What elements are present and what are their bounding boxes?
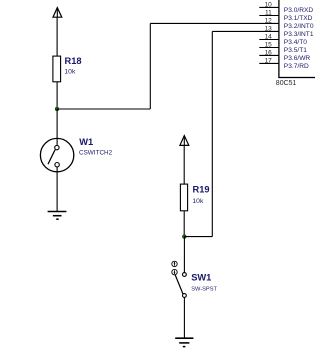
pin 15 stub xyxy=(259,47,279,49)
svg-text:W1: W1 xyxy=(79,137,93,147)
svg-text:P3.2/INT0: P3.2/INT0 xyxy=(284,23,314,30)
svg-text:CSWITCH2: CSWITCH2 xyxy=(79,150,113,157)
wire xyxy=(57,108,150,110)
svg-text:R18: R18 xyxy=(65,56,82,66)
svg-text:SW1: SW1 xyxy=(191,272,211,282)
switch SW1 xyxy=(172,261,187,297)
wire to pin 12 xyxy=(150,22,279,24)
svg-text:P3.4/T0: P3.4/T0 xyxy=(284,39,307,46)
svg-text:80C51: 80C51 xyxy=(276,80,297,87)
svg-text:16: 16 xyxy=(265,50,273,57)
svg-text:P3.1/TXD: P3.1/TXD xyxy=(284,15,313,22)
pin 17 stub xyxy=(259,62,279,64)
ground left xyxy=(48,212,67,220)
pin 16 stub xyxy=(259,54,279,56)
wire to pin 13 xyxy=(212,30,279,32)
ground middle xyxy=(175,338,193,346)
resistor R19 xyxy=(180,184,187,211)
wire xyxy=(56,17,58,56)
svg-text:P3.7/RD: P3.7/RD xyxy=(284,63,309,70)
wire xyxy=(183,211,185,237)
wire xyxy=(183,237,185,273)
wire xyxy=(211,31,213,236)
svg-text:12: 12 xyxy=(265,18,273,25)
switch W1 xyxy=(40,138,73,171)
svg-text:10k: 10k xyxy=(192,198,204,205)
pin 11 stub xyxy=(259,15,279,17)
svg-text:10k: 10k xyxy=(64,69,76,76)
svg-text:17: 17 xyxy=(265,58,273,65)
svg-text:14: 14 xyxy=(265,34,273,41)
wire xyxy=(56,109,58,145)
junction node A xyxy=(55,107,59,111)
svg-text:11: 11 xyxy=(265,10,272,17)
power terminal (VCC) middle xyxy=(180,136,189,146)
wire xyxy=(56,167,58,212)
power terminal (VCC) left xyxy=(53,8,62,18)
wire xyxy=(149,23,151,109)
svg-text:P3.0/RXD: P3.0/RXD xyxy=(284,7,314,14)
svg-text:10: 10 xyxy=(265,2,273,9)
pin 10 stub xyxy=(259,6,279,8)
svg-text:SW-SPST: SW-SPST xyxy=(191,286,217,292)
svg-text:13: 13 xyxy=(265,26,273,33)
junction node B xyxy=(182,235,186,239)
IC U1 80C51 xyxy=(279,0,320,78)
svg-text:P3.5/T1: P3.5/T1 xyxy=(284,47,307,54)
wire xyxy=(56,82,58,109)
resistor R18 xyxy=(53,56,61,82)
wire xyxy=(183,145,185,184)
svg-text:P3.3/INT1: P3.3/INT1 xyxy=(284,31,314,38)
pin 14 stub xyxy=(259,39,279,41)
svg-text:P3.6/WR: P3.6/WR xyxy=(284,55,311,62)
wire xyxy=(183,297,185,338)
wire xyxy=(184,236,212,238)
svg-text:15: 15 xyxy=(265,42,273,49)
svg-text:R19: R19 xyxy=(193,185,210,195)
